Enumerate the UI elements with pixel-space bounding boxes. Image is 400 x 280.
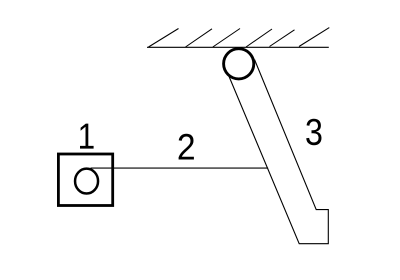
label 2 xyxy=(179,134,194,160)
hatch 5 xyxy=(270,30,295,47)
hatch 1 xyxy=(149,29,179,48)
pin joint circle at ceiling xyxy=(224,49,254,79)
ceiling line (fixed support) xyxy=(147,46,329,48)
label 3 xyxy=(306,119,321,146)
hatch 2 xyxy=(186,29,213,47)
pin circle inside block 1 xyxy=(75,169,98,194)
link 3 outline (rod with stepped foot) xyxy=(228,60,328,244)
hatch 6 xyxy=(299,28,329,47)
link 2 (horizontal connecting rod) xyxy=(91,167,269,169)
label 1 xyxy=(80,124,94,149)
hatch 3 xyxy=(213,29,240,48)
slider block 1 (square) xyxy=(58,154,112,206)
hatch 4 xyxy=(246,29,272,47)
